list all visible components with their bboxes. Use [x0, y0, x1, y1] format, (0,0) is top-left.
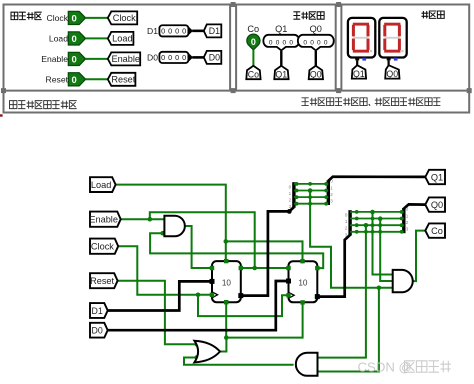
- svg-text:D0: D0: [92, 326, 103, 336]
- svg-text:Enable: Enable: [111, 54, 140, 64]
- svg-text:Enable: Enable: [41, 54, 68, 64]
- svg-text:Co: Co: [431, 226, 443, 236]
- svg-text:Enable: Enable: [89, 215, 118, 225]
- svg-text:Load: Load: [112, 34, 132, 44]
- svg-text:D0: D0: [147, 53, 158, 63]
- svg-text:Q1: Q1: [353, 69, 365, 79]
- svg-text:D1: D1: [147, 26, 158, 36]
- svg-text:0: 0: [72, 34, 77, 45]
- svg-text:D1: D1: [92, 306, 103, 316]
- svg-text:0 0 0 0: 0 0 0 0: [161, 53, 186, 62]
- svg-text:0 0 0 0: 0 0 0 0: [303, 40, 328, 47]
- svg-text:0 0 0 0: 0 0 0 0: [269, 40, 294, 47]
- svg-text:Clock: Clock: [113, 13, 136, 23]
- svg-text:10: 10: [298, 279, 308, 288]
- svg-text:Q0: Q0: [310, 24, 322, 34]
- svg-text:Q0: Q0: [310, 70, 322, 80]
- svg-text:Co: Co: [248, 70, 259, 80]
- svg-text:Reset: Reset: [90, 276, 114, 286]
- svg-text:Reset: Reset: [46, 75, 69, 85]
- svg-text:Q1: Q1: [275, 24, 287, 34]
- svg-text:0 0 0 0: 0 0 0 0: [161, 27, 186, 36]
- svg-text:0: 0: [72, 13, 77, 24]
- svg-text:Clock: Clock: [91, 242, 114, 252]
- svg-text:10: 10: [222, 279, 232, 288]
- svg-text:Load: Load: [49, 34, 68, 44]
- svg-text:CSDN @: CSDN @: [358, 360, 412, 375]
- svg-text:Clock: Clock: [47, 13, 69, 23]
- svg-text:0: 0: [72, 75, 77, 86]
- svg-text:Q1: Q1: [431, 172, 443, 182]
- svg-text:0: 0: [251, 37, 256, 47]
- svg-text:Q0: Q0: [431, 200, 443, 210]
- svg-text:Load: Load: [91, 180, 111, 190]
- svg-text:D1: D1: [209, 26, 220, 36]
- svg-text:Co: Co: [247, 24, 259, 34]
- svg-text:Reset: Reset: [111, 75, 135, 85]
- svg-text:0: 0: [72, 54, 77, 65]
- svg-text:Q1: Q1: [275, 70, 287, 80]
- svg-text:Q0: Q0: [386, 69, 398, 79]
- svg-text:D0: D0: [209, 53, 220, 63]
